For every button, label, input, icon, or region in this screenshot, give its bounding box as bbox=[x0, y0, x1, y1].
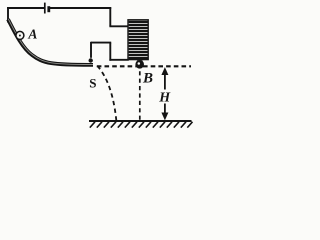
wire right vertical bbox=[109, 7, 111, 26]
wire into coil top bbox=[109, 25, 128, 27]
wire top left bbox=[7, 7, 44, 9]
battery long plate bbox=[44, 3, 46, 14]
H arrow top segment bbox=[164, 72, 166, 90]
battery short plate bbox=[47, 6, 50, 12]
dashed level line bbox=[97, 65, 191, 67]
coil pole piece bbox=[137, 60, 143, 63]
wire from coil bottom bbox=[109, 59, 128, 61]
H arrow up head bbox=[161, 67, 168, 75]
wire to switch bbox=[91, 42, 111, 44]
track inner rail highlight bbox=[8, 19, 93, 64]
ground line bbox=[89, 120, 192, 122]
H arrow bottom segment bbox=[164, 104, 166, 116]
H arrow down head bbox=[161, 113, 168, 121]
dashed vertical from ball B bbox=[139, 71, 141, 120]
switch contact dot bbox=[89, 58, 93, 62]
electromagnet coil bbox=[128, 20, 148, 60]
svg-text:A: A bbox=[27, 26, 37, 41]
curved track ramp bbox=[8, 19, 93, 65]
ground hatching bbox=[90, 122, 193, 128]
wire left vertical bbox=[7, 7, 9, 22]
wire top right bbox=[50, 7, 111, 9]
ball A bbox=[16, 31, 24, 39]
dashed trajectory bbox=[97, 66, 116, 121]
svg-text:S: S bbox=[89, 76, 96, 91]
svg-text:H: H bbox=[158, 90, 171, 105]
ball B bbox=[135, 60, 144, 69]
svg-text:B: B bbox=[142, 70, 153, 86]
wire switch vertical bbox=[90, 42, 92, 58]
wire middle vertical bbox=[109, 43, 111, 61]
